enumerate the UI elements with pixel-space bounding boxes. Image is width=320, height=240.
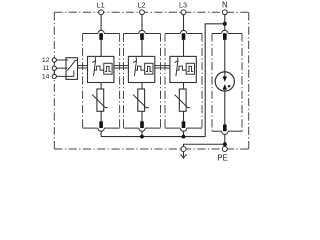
terminal N circle [222, 10, 227, 15]
disconnector arc bottom L3 [180, 128, 186, 131]
monitoring box L1 [88, 56, 114, 82]
wire spark module bottom left [212, 130, 222, 132]
enclosure border right (dash-dot) [248, 12, 250, 149]
terminal earth circle [181, 147, 186, 152]
wire spark module top left [212, 33, 222, 35]
changeover contact blade [67, 60, 77, 70]
wire inside spark gap top [224, 72, 226, 77]
protection module L3 box left side (dash-dot) [164, 34, 166, 129]
wire L1 drop from terminal [100, 12, 102, 30]
svg-text:PE: PE [217, 154, 227, 163]
varistor MOV L2 body [138, 89, 145, 111]
wire module top left L1 [83, 33, 98, 35]
wire varistor L2 to bottom disconnect [141, 111, 143, 121]
disconnector arc top N [222, 30, 228, 33]
varistor MOV L1 diagonal [92, 95, 108, 108]
spark gap N-PE circle [215, 72, 234, 91]
spark gap module box right side (dash-dot) [241, 34, 243, 132]
varistor MOV L3 body [179, 89, 186, 111]
thermal disconnect element bottom L3 (filled) [182, 121, 186, 128]
terminal L1 circle [99, 10, 104, 15]
monitoring device box L1 [104, 63, 112, 74]
monitoring box L3 [170, 56, 196, 82]
thermal disconnect element bottom L1 (filled) [99, 121, 103, 128]
thermal disconnect element L1 (filled) [99, 33, 103, 40]
junction N node [223, 22, 227, 26]
terminal 12 circle [52, 58, 56, 62]
svg-text:12: 12 [42, 57, 50, 64]
pulse icon L3 [187, 66, 193, 71]
wire module top left L3 [165, 33, 180, 35]
wire module bottom right L3 [187, 127, 202, 129]
wire L3 stub to N bus [183, 131, 185, 136]
spark gap electrode arrow up [223, 84, 227, 90]
wire monitoring box to varistor L1 [100, 83, 102, 90]
signal linkage module L2 to L3 (pair of wires) [155, 65, 170, 67]
spark gap module box left side (dash-dot) [211, 34, 213, 132]
thermal switch symbol L2 [133, 57, 136, 76]
junction L2 on N bus [140, 135, 144, 139]
monitoring box L2 [128, 56, 154, 82]
enclosure border top (dash-dot) [54, 11, 248, 13]
disconnector arc top L1 [98, 30, 104, 33]
signal linkage module L1 to L2 (pair of wires) [114, 65, 128, 67]
wire L2 drop from terminal [141, 12, 143, 30]
wire module bottom left L2 [124, 127, 139, 129]
wire spark gap to PE node [224, 134, 226, 146]
svg-text:14: 14 [42, 73, 50, 80]
wire module bottom left L3 [165, 127, 180, 129]
thermal disconnect element bottom L2 (filled) [140, 121, 144, 128]
pulse icon L2 [146, 66, 152, 71]
thermal switch symbol L3 [175, 57, 178, 76]
svg-text:L3: L3 [179, 0, 187, 9]
monitoring device box L3 [186, 63, 194, 74]
wire module bottom right L1 [104, 127, 119, 129]
wire L3 to monitoring box [183, 40, 185, 57]
N bus wire (varistor commons to N node) [101, 24, 223, 137]
terminal L3 circle [181, 10, 186, 15]
svg-text:N: N [222, 1, 228, 10]
thermal disconnect element L2 (filled) [140, 33, 144, 40]
svg-text:L1: L1 [97, 0, 105, 9]
protection module L2 box right side (dash-dot) [160, 34, 162, 129]
wire L1 to monitoring box [100, 40, 102, 57]
enclosure border bottom (dash-dot) [54, 148, 248, 150]
wire module bottom right L2 [145, 127, 160, 129]
wire terminal 11 to contact box [56, 67, 67, 69]
wire L2 stub to N bus [141, 131, 143, 136]
terminal 11 circle [52, 66, 56, 70]
disconnector arc bottom L2 [139, 128, 145, 131]
wire monitoring box to varistor L3 [183, 83, 185, 90]
varistor MOV L2 diagonal [133, 95, 149, 108]
wire L2 to monitoring box [141, 40, 143, 57]
pulse link symbol L1 [94, 66, 103, 70]
junction L3 on N bus [182, 135, 186, 139]
wire spark module bottom right [228, 130, 242, 132]
wire N to spark gap [224, 40, 226, 77]
wire varistor L1 to bottom disconnect [100, 111, 102, 121]
monitoring device box L2 [145, 63, 153, 74]
wire module top right L2 [145, 33, 160, 35]
thermal disconnect element L3 (filled) [182, 33, 186, 40]
spark gap electrode arrow down [223, 76, 227, 82]
terminal L2 circle [140, 10, 145, 15]
wire terminal 12 to contact box [56, 59, 68, 61]
varistor MOV L1 body [97, 89, 104, 111]
wire spark gap to bottom disconnect [224, 90, 226, 125]
disconnector arc top L3 [180, 30, 186, 33]
contact 14 tick [73, 71, 75, 77]
thermal disconnect element bottom N (filled) [223, 125, 227, 132]
wire module top right L1 [104, 33, 119, 35]
terminal PE circle [222, 147, 227, 152]
wire varistor L3 to bottom disconnect [183, 111, 185, 121]
wire monitoring box to varistor L2 [141, 83, 143, 90]
wire module bottom left L1 [83, 127, 98, 129]
svg-text:L2: L2 [138, 0, 146, 9]
protection module L1 box right side (dash-dot) [119, 34, 121, 129]
wire module top left L2 [124, 33, 139, 35]
spark gap dot [228, 85, 230, 87]
protection module L2 box left side (dash-dot) [123, 34, 125, 129]
pulse link symbol L3 [177, 66, 186, 70]
terminal 14 circle [52, 74, 56, 78]
svg-text:11: 11 [42, 65, 49, 72]
wire L3 drop from terminal [183, 12, 185, 30]
wire module top right L3 [187, 33, 202, 35]
wire terminal 14 to contact box [56, 75, 73, 77]
varistor MOV L3 diagonal [175, 95, 191, 108]
wire N drop [224, 12, 226, 30]
protection module L3 box right side (dash-dot) [201, 34, 203, 129]
pulse link symbol L2 [135, 66, 144, 70]
enclosure border left (dash-dot) [53, 12, 55, 149]
ground symbol [181, 152, 187, 158]
wire between terminals 12-11-14 [53, 60, 55, 76]
disconnector arc bottom N [222, 131, 228, 134]
wire spark module top right [228, 33, 242, 35]
wire PE node to earth terminal [184, 144, 225, 146]
junction PE node [223, 142, 227, 146]
protection module L1 box left side (dash-dot) [82, 34, 84, 129]
pulse icon L1 [105, 66, 111, 71]
signal linkage FM to module L1 (pair of wires) [77, 65, 88, 67]
wire L1 stub to N bus [100, 131, 102, 136]
thermal disconnect element N (filled) [223, 33, 227, 40]
disconnector arc bottom L1 [98, 128, 104, 131]
remote signalling contact box [66, 58, 78, 80]
disconnector arc top L2 [139, 30, 145, 33]
thermal switch symbol L1 [92, 57, 95, 76]
